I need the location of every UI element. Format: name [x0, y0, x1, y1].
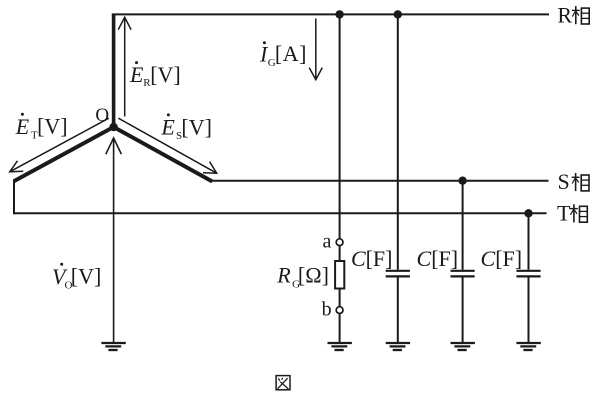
svg-text:[A]: [A] — [275, 41, 307, 66]
svg-text:S: S — [558, 169, 570, 194]
wire S phase line — [212, 180, 549, 182]
winding S (thick) — [114, 127, 213, 182]
label C3 value C[F] — [481, 246, 523, 271]
junction dot on R line at R_G branch — [335, 10, 343, 18]
junction dot on R line at C1 branch — [394, 10, 402, 18]
wire R_G branch upper — [339, 14, 341, 238]
label T phase — [557, 201, 587, 226]
svg-text:b: b — [322, 299, 332, 321]
svg-text:C: C — [351, 246, 366, 271]
wire C1 to ground — [397, 278, 399, 344]
junction dot on S line at C2 branch — [458, 177, 466, 185]
svg-text:E: E — [15, 114, 30, 139]
label E_T [V] — [15, 113, 68, 142]
wire C3 to ground — [528, 278, 530, 344]
label C1 value C[F] — [351, 246, 392, 271]
label E_S [V] — [160, 113, 212, 142]
svg-text:T: T — [557, 201, 571, 226]
wire resistor to b — [339, 289, 341, 307]
svg-text:[Ω]: [Ω] — [298, 262, 329, 287]
wire C1 branch from R line — [397, 14, 399, 269]
svg-text:[V]: [V] — [181, 114, 212, 139]
phasor arrow V_O pointing up to node O — [106, 138, 122, 343]
capacitor C2 plates — [451, 271, 475, 277]
svg-text:[F]: [F] — [431, 246, 458, 271]
wire C2 branch from S line — [462, 181, 464, 270]
ground below C3 — [516, 343, 540, 350]
svg-text:[F]: [F] — [495, 246, 522, 271]
ground below C1 — [386, 343, 410, 350]
wire b to ground — [339, 314, 341, 343]
label V_O [V] — [52, 263, 101, 292]
label C2 value C[F] — [417, 246, 459, 271]
svg-text:E: E — [129, 62, 144, 87]
winding R (thick) — [112, 14, 116, 128]
ground below C2 — [451, 343, 475, 350]
label E_R [V] — [129, 61, 181, 89]
winding T (thick) — [14, 127, 114, 181]
svg-text:E: E — [160, 114, 175, 139]
svg-text:[V]: [V] — [37, 114, 68, 139]
svg-text:C: C — [417, 246, 432, 271]
resistor R_G body — [335, 261, 344, 289]
svg-text:[V]: [V] — [71, 264, 102, 289]
phasor arrow E_R — [118, 17, 131, 116]
junction dot on T line at C3 branch — [524, 209, 532, 217]
ground below R_G — [328, 343, 352, 350]
label R_G [ohm] — [276, 262, 329, 290]
label R phase — [557, 2, 589, 27]
label I_G [A] — [259, 41, 306, 69]
node O junction dot — [109, 123, 117, 131]
svg-text:R: R — [557, 2, 572, 27]
label figure caption — [276, 376, 290, 390]
wire C2 to ground — [462, 278, 464, 344]
wire left drop from T winding to T line — [13, 180, 15, 214]
terminal a circle — [336, 239, 343, 246]
ground below V_O line — [101, 343, 125, 350]
wire a to resistor — [339, 246, 341, 261]
phasor arrow E_T — [10, 118, 109, 172]
svg-text:[F]: [F] — [366, 246, 393, 271]
svg-text:a: a — [323, 230, 332, 252]
wire R phase line — [112, 13, 549, 15]
svg-text:O: O — [95, 105, 109, 126]
svg-text:C: C — [481, 246, 496, 271]
label S phase — [558, 169, 590, 194]
capacitor C3 plates — [516, 271, 540, 277]
svg-text:R: R — [276, 262, 291, 287]
wire C3 branch from T line — [528, 213, 530, 269]
wire T phase line — [14, 212, 547, 214]
phasor arrow E_S — [118, 118, 216, 173]
arrow I_G pointing down — [309, 19, 322, 80]
capacitor C1 plates — [386, 271, 410, 277]
svg-text:[V]: [V] — [150, 62, 181, 87]
terminal b circle — [336, 307, 343, 314]
